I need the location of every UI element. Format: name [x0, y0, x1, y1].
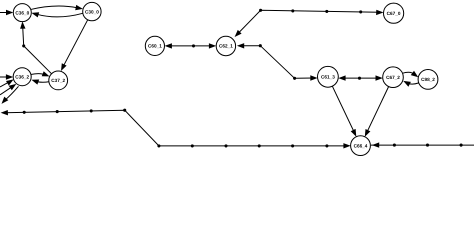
edge C30_0 to C37_2	[64, 20, 88, 66]
node C67_0	[384, 3, 404, 23]
dummy dot 3 on bottom polyline	[90, 109, 93, 112]
edge from off-canvas left into C36_2 (horizontal)	[0, 76, 9, 78]
dummy dot 1 on right bottom edge	[393, 144, 396, 147]
edge C67_2 to C66_4	[368, 87, 389, 131]
long polyline edge along bottom-left with arrow off-canvas left	[5, 110, 347, 146]
node C62_1	[216, 36, 235, 55]
edge C37_2 to C36_2 (lower curve)	[35, 81, 50, 82]
edge from off-canvas left into node C36_0	[0, 12, 9, 14]
arrowhead into C66_4 from left polyline	[343, 143, 350, 148]
arrowhead into C67_0	[376, 10, 383, 15]
dummy dot 2 on bottom polyline	[56, 110, 59, 113]
dummy dot left of C61_3	[293, 77, 296, 80]
polyline edge into C62_1 from lower-right via bend	[240, 46, 295, 79]
node C36_0	[13, 4, 31, 22]
bend dot right of C62_1	[259, 44, 262, 47]
node C60_1	[145, 36, 164, 55]
svg-text:C30_0: C30_0	[85, 9, 99, 14]
svg-text:C62_1: C62_1	[219, 44, 233, 49]
bend dot on edge C37_2 to C36_0	[22, 44, 25, 47]
dummy dot 8 on bottom polyline	[258, 144, 261, 147]
edge from off-canvas right into C66_4	[371, 144, 474, 146]
svg-text:C67_0: C67_0	[387, 11, 401, 16]
dummy dot 10 on bottom polyline	[325, 144, 328, 147]
dummy dot 2 on top polyline	[325, 10, 328, 13]
edge C37_2 to C36_0 via bend point	[23, 25, 52, 74]
dummy dot 7 on bottom polyline	[224, 144, 227, 147]
dummy dot 6 on bottom polyline	[191, 144, 194, 147]
dummy dot 1 on bottom polyline	[23, 111, 26, 114]
edge C67_2 to C98_2 (upper curve)	[402, 72, 415, 75]
svg-text:C98_2: C98_2	[421, 77, 435, 82]
edge C36_0 to C30_0 (upper curve)	[30, 6, 78, 10]
dummy dot between C61_3 and C67_2	[358, 77, 361, 80]
dummy dot between C60_1 and C62_1	[192, 44, 195, 47]
svg-text:C37_2: C37_2	[51, 78, 65, 83]
node C61_3	[318, 66, 339, 87]
polyline edge between C62_1 and C67_0 along top	[237, 10, 380, 35]
edge C61_3 / C67_2 connector with both arrowheads	[342, 77, 380, 79]
node C67_2	[383, 67, 404, 88]
svg-text:C60_1: C60_1	[148, 44, 162, 49]
node C30_0	[83, 2, 101, 20]
node C98_2	[418, 70, 438, 90]
edge C36_2 to C37_2 (upper curve)	[31, 74, 46, 75]
bend dot near C62_1 top	[259, 9, 262, 12]
edge from off-canvas lower-left into C36_2 (upper diagonal)	[0, 82, 8, 87]
edge C36_2 to off-canvas lower-left	[5, 86, 19, 100]
edge C60_1 / C62_1 connector with both arrowheads	[168, 45, 213, 47]
dummy dot 1 on top polyline	[291, 9, 294, 12]
dummy dot 3 on top polyline	[359, 10, 362, 13]
edge C98_2 to C67_2 (lower curve)	[407, 82, 419, 84]
bend dot 5 on bottom polyline	[157, 144, 160, 147]
dummy dot 3 on right bottom edge	[460, 144, 463, 147]
node C66_4	[351, 136, 371, 156]
svg-text:C66_4: C66_4	[354, 143, 368, 148]
bend dot 4 on bottom polyline	[123, 109, 126, 112]
svg-text:C36_2: C36_2	[15, 74, 29, 79]
edge segment from dot into C61_3	[296, 77, 314, 79]
arrowhead into C62_1 (top-right)	[235, 30, 242, 37]
edge from off-canvas lower-left into C36_2 (lower diagonal)	[0, 88, 11, 95]
svg-text:C67_2: C67_2	[386, 75, 400, 80]
node C37_2	[49, 71, 68, 90]
svg-text:C61_3: C61_3	[321, 75, 335, 80]
edge C30_0 to C36_0 (lower curve)	[37, 13, 84, 17]
dummy dot 9 on bottom polyline	[291, 144, 294, 147]
directed graph diagram	[0, 0, 474, 157]
node C36_2	[13, 68, 31, 86]
dummy dot 2 on right bottom edge	[426, 144, 429, 147]
svg-text:C36_0: C36_0	[15, 10, 29, 15]
edge C61_3 to C66_4	[332, 86, 353, 130]
